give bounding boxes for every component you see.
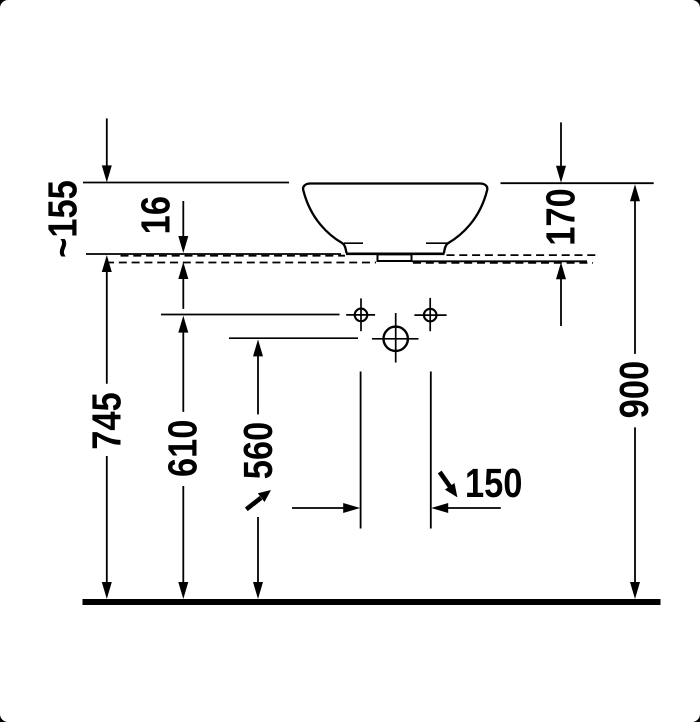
dim 610 line lower [182,486,184,584]
label ~155 [48,181,77,256]
dim 900 top arrowhead (up) [630,184,640,201]
dim ~155 top extension line [106,118,108,167]
countertop dashed top edge left [121,255,346,257]
dim 745 bottom arrowhead (down) [102,582,112,599]
dim 560 line lower [257,517,259,584]
dim 170 bottom tail [560,278,562,326]
dim 150 left arrowhead (right) [343,503,360,513]
faucet hole left circle [346,298,375,331]
faucet hole right circle [414,298,446,331]
dim 170 top extension [560,122,562,167]
countertop dashed top edge right [447,254,601,256]
dim 16 top extension [182,201,184,238]
dim 900 line upper [634,200,636,354]
countertop bottom reference line right solid [412,260,587,262]
label 150 [467,469,521,498]
floor line [83,599,661,605]
top reference line left [83,182,289,184]
dim 900 line lower [634,427,636,584]
dim ~155 bottom arrowhead (up) [102,255,112,272]
countertop reference line left solid [86,253,341,255]
label 745 [92,393,121,448]
label 900 [620,362,649,417]
mixer hole reference line y=338.2 [229,337,358,339]
dim 560 top arrowhead (up) [253,339,263,356]
dim 16 bottom tail [182,278,184,309]
dim 610 bottom arrowhead (down) [178,582,188,599]
dim 170 top arrowhead (down) [556,166,566,183]
countertop dashed bottom edge right [413,262,593,264]
label 16 [141,197,170,232]
dim 16 bottom arrowhead (up) [178,262,188,279]
dim 150 right extension line [430,372,432,529]
faucet hole reference line y=314.5 [161,314,340,316]
dim 170 bottom arrowhead (up) [556,262,566,279]
dim 150 diagonal arrow [440,472,458,497]
drain recess rectangle [378,254,412,261]
dim 150 right arrowhead (left) [431,503,448,513]
dim 16 top arrowhead (down) [178,236,188,253]
washbasin foot ledge right [426,242,450,244]
washbasin foot ledge left [344,242,363,244]
dim 150 left extension line [360,372,362,529]
dim 150 left line [292,507,344,509]
dim 560 bottom arrowhead (down) [253,582,263,599]
washbasin base line [346,252,445,255]
dim 745 line lower [106,456,108,584]
label 560 [244,423,273,478]
washbasin outline [303,184,487,254]
mixer hole big circle [372,313,419,363]
dim 745 line upper [106,271,108,384]
label 170 [546,190,575,244]
countertop dashed bottom edge left [106,262,376,264]
dim 900 bottom arrowhead (down) [630,582,640,599]
top reference line right [501,182,654,184]
dim 560 diagonal arrow [246,490,271,509]
dim 560 line upper [257,355,259,414]
label 610 [168,421,197,476]
dim 150 right line [447,507,501,509]
dim 610 line upper [182,332,184,412]
dim 610 top arrowhead (up) [178,316,188,333]
dim ~155 top arrowhead (down) [102,165,112,182]
